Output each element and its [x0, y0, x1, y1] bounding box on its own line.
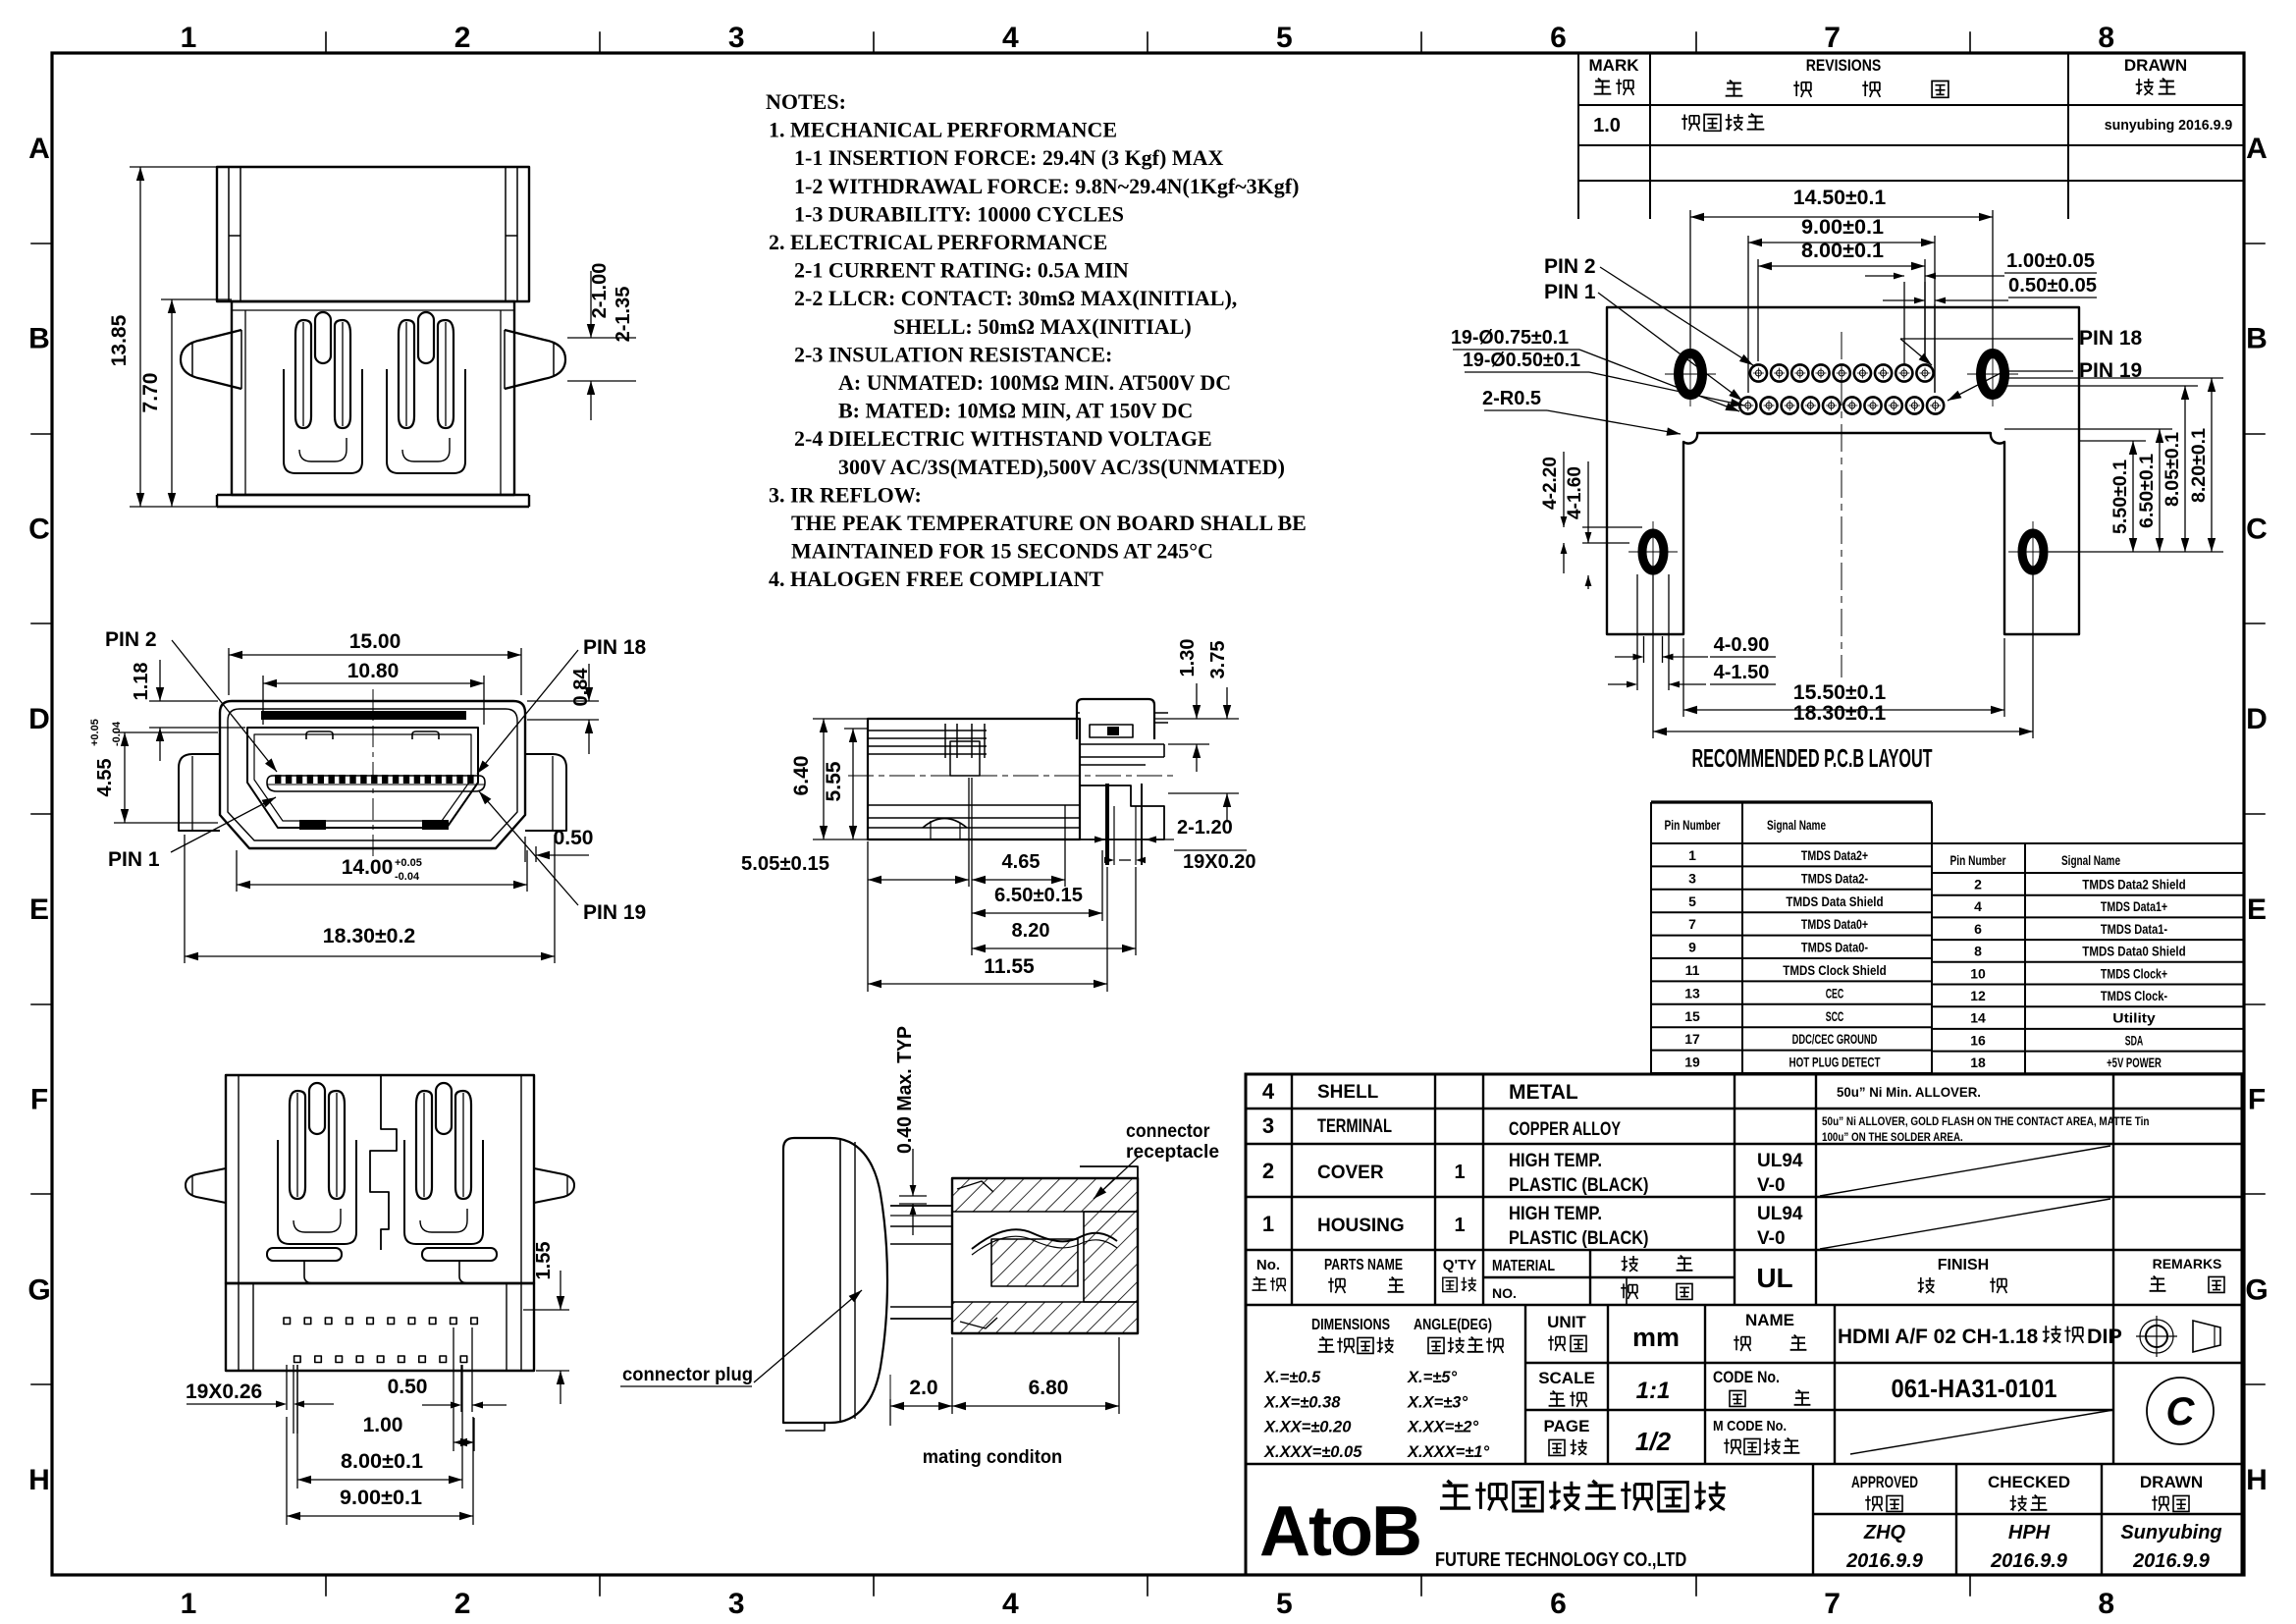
svg-text:HOUSING: HOUSING — [1317, 1216, 1405, 1236]
svg-text:ANGLE(DEG): ANGLE(DEG) — [1414, 1317, 1492, 1333]
svg-text:X.XX=±0.20: X.XX=±0.20 — [1263, 1419, 1352, 1436]
PCB pin holes: even row (2-18) — [1750, 364, 1767, 381]
view 5 connector plug body — [783, 1138, 887, 1423]
PCB pin holes: odd row (1-19) — [1739, 397, 1756, 413]
svg-text:2016.9.9: 2016.9.9 — [2132, 1550, 2211, 1572]
svg-text:APPROVED: APPROVED — [1851, 1473, 1918, 1491]
svg-text:TMDS Clock-: TMDS Clock- — [2101, 988, 2167, 1003]
svg-text:12: 12 — [1970, 988, 1986, 1003]
svg-text:3: 3 — [1688, 870, 1696, 886]
svg-text:0.84: 0.84 — [570, 668, 592, 707]
label 19-Ø0.50±0.1 — [1465, 372, 1744, 406]
svg-text:TMDS Data1+: TMDS Data1+ — [2101, 898, 2167, 914]
svg-text:1.30: 1.30 — [1177, 639, 1199, 677]
svg-text:DDC/CEC GROUND: DDC/CEC GROUND — [1792, 1031, 1878, 1047]
svg-text:NO.: NO. — [1492, 1285, 1517, 1301]
dim 8.20 — [972, 867, 1136, 955]
svg-text:300V AC/3S(MATED),500V AC/3S(U: 300V AC/3S(MATED),500V AC/3S(UNMATED) — [838, 455, 1285, 479]
svg-text:1: 1 — [1688, 847, 1696, 863]
svg-text:C: C — [28, 513, 50, 545]
svg-text:1-2 WITHDRAWAL FORCE: 9.8N~29: 1-2 WITHDRAWAL FORCE: 9.8N~29.4N(1Kgf~3K… — [794, 174, 1299, 198]
svg-text:TMDS Data Shield: TMDS Data Shield — [1786, 893, 1883, 909]
labels PIN 2 / PIN 1 — [1598, 267, 1753, 401]
svg-text:2. ELECTRICAL PERFORMANCE: 2. ELECTRICAL PERFORMANCE — [769, 230, 1107, 254]
dim 10.80 — [263, 676, 484, 725]
view 4 DIP legs — [1105, 784, 1109, 865]
zone tick marks — [325, 32, 327, 53]
dim 0.40 Max. TYP — [899, 1149, 927, 1235]
dim 1.30 / 3.75 — [1154, 683, 1239, 821]
svg-text:A: A — [2246, 133, 2268, 165]
svg-text:PIN 1: PIN 1 — [108, 848, 160, 871]
dim 5.05±0.15 / 4.65 — [868, 778, 1065, 992]
svg-text:7: 7 — [1824, 22, 1841, 54]
dim 2-1.00 / 2-1.35 — [567, 271, 636, 420]
svg-text:SHELL: 50mΩ MAX(INITIAL): SHELL: 50mΩ MAX(INITIAL) — [893, 314, 1192, 339]
dim 11.55 — [868, 867, 1107, 992]
svg-text:7.70: 7.70 — [139, 373, 162, 413]
svg-text:COPPER ALLOY: COPPER ALLOY — [1509, 1119, 1621, 1140]
view 5: mating condition — [783, 1138, 1138, 1431]
view 3 side tabs — [186, 1168, 226, 1203]
labels PIN 18 / PIN 19 — [1900, 339, 2073, 401]
svg-text:METAL: METAL — [1509, 1081, 1578, 1104]
svg-text:connector: connector — [1126, 1121, 1210, 1142]
svg-text:B: MATED: 10MΩ MIN, AT 150V: B: MATED: 10MΩ MIN, AT 150V DC — [838, 399, 1193, 423]
svg-text:X.=±5°: X.=±5° — [1407, 1369, 1457, 1386]
svg-text:CODE No.: CODE No. — [1713, 1368, 1780, 1386]
svg-text:4.65: 4.65 — [1002, 851, 1041, 873]
svg-text:6: 6 — [1550, 1588, 1567, 1620]
svg-text:HDMI A/F 02 CH-1.18: HDMI A/F 02 CH-1.18 — [1838, 1325, 2038, 1348]
svg-text:1: 1 — [181, 22, 197, 54]
svg-text:18: 18 — [1970, 1055, 1986, 1070]
svg-text:A: A — [28, 133, 50, 165]
svg-text:AtoB: AtoB — [1259, 1492, 1420, 1571]
svg-text:16: 16 — [1970, 1032, 1986, 1048]
svg-text:UNIT: UNIT — [1547, 1313, 1586, 1331]
svg-text:5.50±0.1: 5.50±0.1 — [2110, 460, 2131, 534]
svg-text:REMARKS: REMARKS — [2153, 1256, 2222, 1272]
svg-text:2016.9.9: 2016.9.9 — [1845, 1550, 1924, 1572]
svg-text:mating conditon: mating conditon — [923, 1447, 1063, 1468]
dim 14.50±0.1 — [1690, 210, 1993, 349]
svg-text:8.00±0.1: 8.00±0.1 — [341, 1450, 423, 1473]
dim 2-1.20 / 19X0.20 — [1090, 837, 1247, 864]
svg-text:1. MECHANICAL PERFORMANCE: 1. MECHANICAL PERFORMANCE — [769, 118, 1117, 142]
svg-text:E: E — [2247, 893, 2267, 926]
svg-text:DRAWN: DRAWN — [2124, 56, 2187, 75]
svg-text:100u” ON THE SOLDER AREA.: 100u” ON THE SOLDER AREA. — [1822, 1132, 1963, 1144]
svg-text:1: 1 — [1454, 1215, 1465, 1236]
svg-text:SDA: SDA — [2125, 1032, 2144, 1048]
svg-text:1: 1 — [1262, 1212, 1274, 1236]
svg-text:9: 9 — [1688, 940, 1696, 955]
svg-text:4: 4 — [1262, 1079, 1275, 1104]
svg-text:X.=±0.5: X.=±0.5 — [1263, 1369, 1321, 1386]
svg-text:9.00±0.1: 9.00±0.1 — [340, 1487, 422, 1509]
svg-text:7: 7 — [1824, 1588, 1841, 1620]
label 2-R0.5 — [1484, 410, 1681, 436]
svg-text:1.18: 1.18 — [131, 663, 152, 701]
svg-text:3: 3 — [728, 1588, 745, 1620]
svg-text:C: C — [2246, 513, 2268, 545]
svg-text:TMDS Clock+: TMDS Clock+ — [2101, 965, 2167, 981]
svg-text:14.50±0.1: 14.50±0.1 — [1793, 187, 1887, 209]
svg-text:PIN 18: PIN 18 — [2079, 327, 2143, 350]
view 5 spring contact — [972, 1229, 1117, 1249]
svg-text:8.00±0.1: 8.00±0.1 — [1801, 240, 1884, 262]
right vertical dims 5.50/6.50/8.05/8.20 — [2004, 378, 2223, 552]
svg-text:V-0: V-0 — [1757, 1228, 1786, 1249]
svg-text:2: 2 — [454, 1588, 471, 1620]
dim 6.40 — [813, 719, 868, 839]
svg-text:2: 2 — [454, 22, 471, 54]
svg-text:FUTURE TECHNOLOGY CO.,LTD: FUTURE TECHNOLOGY CO.,LTD — [1435, 1548, 1686, 1571]
svg-text:MAINTAINED FOR 15 SECONDS AT 2: MAINTAINED FOR 15 SECONDS AT 245°C — [791, 539, 1213, 564]
svg-text:11: 11 — [1685, 962, 1700, 978]
svg-text:PARTS NAME: PARTS NAME — [1324, 1257, 1403, 1273]
dim 0.50±0.05 — [1883, 298, 2097, 393]
svg-text:PIN 2: PIN 2 — [105, 628, 157, 651]
dim 18.30±0.1 — [1653, 574, 2033, 738]
svg-text:7: 7 — [1688, 916, 1696, 932]
svg-text:3: 3 — [728, 22, 745, 54]
svg-text:8.20: 8.20 — [1012, 920, 1050, 942]
svg-text:HIGH TEMP.: HIGH TEMP. — [1509, 1204, 1602, 1224]
dim 15.00 — [229, 648, 521, 695]
svg-text:4-2.20: 4-2.20 — [1540, 457, 1561, 510]
dim 1.00 — [454, 1327, 474, 1451]
svg-text:X.XXX=±0.05: X.XXX=±0.05 — [1263, 1443, 1362, 1461]
svg-text:sunyubing 2016.9.9: sunyubing 2016.9.9 — [2105, 118, 2233, 134]
svg-text:X.X=±0.38: X.X=±0.38 — [1263, 1393, 1341, 1411]
svg-text:5.05±0.15: 5.05±0.15 — [741, 853, 829, 875]
svg-text:15.00: 15.00 — [349, 630, 401, 653]
svg-text:PIN 19: PIN 19 — [583, 901, 646, 924]
svg-text:HPH: HPH — [2008, 1522, 2051, 1543]
view 2 contact blade with 19 teeth — [267, 776, 485, 791]
svg-text:5: 5 — [1276, 22, 1293, 54]
svg-text:F: F — [2248, 1084, 2266, 1116]
label 19-Ø0.75±0.1 — [1453, 350, 1739, 411]
svg-text:Sunyubing: Sunyubing — [2120, 1522, 2221, 1543]
svg-text:6: 6 — [1974, 921, 1982, 937]
svg-text:4-1.50: 4-1.50 — [1714, 662, 1770, 683]
svg-text:Q'TY: Q'TY — [1443, 1257, 1476, 1273]
svg-text:CEC: CEC — [1826, 985, 1844, 1001]
svg-text:8: 8 — [2098, 22, 2114, 54]
svg-text:3.75: 3.75 — [1207, 641, 1229, 679]
svg-text:2: 2 — [1262, 1159, 1274, 1183]
svg-text:UL94: UL94 — [1757, 1151, 1803, 1171]
svg-text:2-1.00: 2-1.00 — [589, 263, 611, 319]
svg-text:4: 4 — [1974, 898, 1982, 914]
svg-text:DIP: DIP — [2087, 1325, 2122, 1348]
svg-text:TERMINAL: TERMINAL — [1317, 1116, 1392, 1137]
svg-text:14: 14 — [1970, 1010, 1986, 1026]
finish column diagonals — [1820, 1146, 2113, 1454]
svg-text:Pin Number: Pin Number — [1665, 817, 1721, 833]
svg-text:1.0: 1.0 — [1593, 115, 1621, 136]
svg-text:FINISH: FINISH — [1938, 1257, 1989, 1273]
svg-text:TMDS Data0+: TMDS Data0+ — [1801, 916, 1868, 932]
svg-text:RECOMMENDED P.C.B LAYOUT: RECOMMENDED P.C.B LAYOUT — [1692, 743, 1933, 773]
svg-text:19-Ø0.50±0.1: 19-Ø0.50±0.1 — [1463, 350, 1580, 371]
svg-text:+0.05: +0.05 — [395, 857, 422, 869]
svg-text:PIN 1: PIN 1 — [1544, 281, 1596, 303]
view 3 solder-pin area — [226, 1283, 534, 1371]
svg-text:0.50: 0.50 — [554, 827, 594, 849]
svg-text:DRAWN: DRAWN — [2140, 1473, 2203, 1491]
svg-text:2: 2 — [1974, 877, 1982, 893]
svg-text:6.40: 6.40 — [790, 756, 813, 796]
svg-text:2-1.20: 2-1.20 — [1177, 817, 1233, 839]
svg-text:PLASTIC (BLACK): PLASTIC (BLACK) — [1509, 1228, 1649, 1249]
label connector receptacle — [1094, 1157, 1139, 1199]
svg-text:0.50: 0.50 — [388, 1376, 428, 1398]
dim 0.50 (pitch offset) — [422, 1327, 507, 1412]
view 2 latch tabs — [306, 731, 333, 739]
view 1 contact clips — [315, 312, 331, 363]
svg-text:5: 5 — [1276, 1588, 1293, 1620]
dim 1.00±0.05 — [1865, 273, 2097, 365]
svg-text:C: C — [2166, 1390, 2196, 1434]
svg-text:TMDS Data0-: TMDS Data0- — [1801, 940, 1868, 955]
svg-text:E: E — [29, 893, 49, 926]
svg-text:HIGH TEMP.: HIGH TEMP. — [1509, 1151, 1602, 1171]
svg-text:NOTES:: NOTES: — [766, 89, 846, 114]
svg-text:2-R0.5: 2-R0.5 — [1482, 388, 1541, 409]
svg-text:PLASTIC (BLACK): PLASTIC (BLACK) — [1509, 1175, 1649, 1196]
svg-text:X.XX=±2°: X.XX=±2° — [1407, 1419, 1478, 1436]
svg-text:H: H — [2246, 1464, 2268, 1496]
svg-text:4. HALOGEN FREE COMPLIANT: 4. HALOGEN FREE COMPLIANT — [769, 567, 1103, 591]
svg-text:-0.04: -0.04 — [395, 871, 420, 883]
svg-text:PIN 18: PIN 18 — [583, 636, 647, 659]
svg-text:19X0.20: 19X0.20 — [1183, 851, 1256, 873]
dim 14.00 — [237, 850, 527, 892]
dim 1.18 — [149, 660, 245, 761]
view 4 contact stack — [944, 724, 946, 758]
dim 18.30±0.2 — [185, 835, 555, 963]
svg-text:1: 1 — [1454, 1162, 1465, 1183]
dim 4.55 — [114, 732, 218, 823]
svg-text:-0.04: -0.04 — [111, 721, 123, 746]
dim 5.55 — [844, 729, 868, 839]
dim 7.70 — [161, 299, 232, 507]
svg-text:TMDS Clock Shield: TMDS Clock Shield — [1783, 962, 1886, 978]
svg-text:1/2: 1/2 — [1635, 1427, 1672, 1456]
dim 19X0.26 — [187, 1365, 334, 1434]
view 5 connector receptacle (section, hatched) — [952, 1178, 1138, 1333]
svg-text:1.00±0.05: 1.00±0.05 — [2006, 250, 2095, 272]
svg-text:6: 6 — [1550, 22, 1567, 54]
svg-text:6.50±0.15: 6.50±0.15 — [994, 885, 1083, 906]
svg-text:UL: UL — [1756, 1263, 1792, 1293]
svg-text:D: D — [28, 703, 50, 735]
svg-text:1.00: 1.00 — [363, 1414, 403, 1436]
dims 4-2.20 / 4-1.60 — [1561, 452, 1642, 589]
svg-text:D: D — [2246, 703, 2268, 735]
view 3 solder feet — [267, 1248, 342, 1261]
svg-text:G: G — [27, 1273, 50, 1306]
svg-text:2016.9.9: 2016.9.9 — [1990, 1550, 2068, 1572]
svg-text:+5V POWER: +5V POWER — [2107, 1055, 2162, 1070]
svg-text:SCALE: SCALE — [1538, 1369, 1595, 1387]
svg-text:THE PEAK TEMPERATURE ON BOARD: THE PEAK TEMPERATURE ON BOARD SHALL BE — [791, 511, 1307, 535]
svg-text:TMDS Data0 Shield: TMDS Data0 Shield — [2082, 944, 2185, 959]
svg-text:REVISIONS: REVISIONS — [1806, 56, 1882, 75]
svg-text:H: H — [28, 1464, 50, 1496]
svg-text:4-0.90: 4-0.90 — [1714, 634, 1770, 656]
svg-text:19: 19 — [1684, 1055, 1700, 1070]
svg-text:Pin Number: Pin Number — [1950, 852, 2006, 868]
svg-text:8: 8 — [2098, 1588, 2114, 1620]
dim 9.00±0.1 — [1748, 236, 1935, 393]
svg-text:10.80: 10.80 — [347, 660, 400, 682]
svg-text:TMDS Data2-: TMDS Data2- — [1801, 870, 1868, 886]
dim 0.50 — [525, 837, 589, 862]
dims 4-0.90 / 4-1.50 — [1608, 574, 1776, 690]
svg-text:18.30±0.1: 18.30±0.1 — [1793, 702, 1887, 725]
dim 0.84 — [527, 664, 599, 754]
svg-text:X.XXX=±1°: X.XXX=±1° — [1407, 1443, 1489, 1461]
svg-text:0.50±0.05: 0.50±0.05 — [2008, 275, 2097, 297]
company name hanzi — [1440, 1481, 1470, 1508]
dim 8.00±0.1 — [297, 1365, 462, 1489]
svg-text:G: G — [2245, 1273, 2268, 1306]
svg-text:10: 10 — [1970, 965, 1986, 981]
svg-text:2-4 DIELECTRIC WITHSTAND VOLTA: 2-4 DIELECTRIC WITHSTAND VOLTAGE — [794, 426, 1212, 451]
svg-text:ZHQ: ZHQ — [1863, 1522, 1906, 1543]
svg-text:No.: No. — [1256, 1257, 1280, 1273]
svg-text:11.55: 11.55 — [984, 955, 1035, 978]
svg-text:TMDS Data2 Shield: TMDS Data2 Shield — [2082, 877, 2185, 893]
svg-text:receptacle: receptacle — [1126, 1142, 1219, 1163]
svg-text:19-Ø0.75±0.1: 19-Ø0.75±0.1 — [1451, 327, 1569, 349]
svg-text:HOT PLUG DETECT: HOT PLUG DETECT — [1789, 1055, 1881, 1070]
pin table left (odd pins) — [1651, 802, 1932, 1073]
svg-text:TMDS Data1-: TMDS Data1- — [2101, 921, 2167, 937]
PCB oval slots — [1679, 353, 1702, 395]
svg-text:6.50±0.1: 6.50±0.1 — [2137, 454, 2158, 528]
svg-text:+0.05: +0.05 — [89, 719, 101, 746]
dim 6.50±0.15 — [972, 850, 1102, 921]
svg-text:2-1 CURRENT RATING: 0.5A MIN: 2-1 CURRENT RATING: 0.5A MIN — [794, 258, 1129, 283]
svg-text:SHELL: SHELL — [1317, 1082, 1379, 1103]
svg-text:B: B — [2246, 323, 2268, 355]
svg-text:15: 15 — [1684, 1008, 1700, 1024]
svg-text:13.85: 13.85 — [108, 314, 131, 366]
svg-text:14.00: 14.00 — [342, 856, 394, 879]
svg-text:9.00±0.1: 9.00±0.1 — [1801, 216, 1884, 239]
svg-text:8.20±0.1: 8.20±0.1 — [2189, 428, 2210, 503]
svg-text:PAGE: PAGE — [1544, 1417, 1590, 1435]
svg-text:MATERIAL: MATERIAL — [1492, 1258, 1555, 1274]
label connector plug — [620, 1290, 862, 1386]
svg-text:UL94: UL94 — [1757, 1204, 1803, 1224]
svg-text:B: B — [28, 323, 50, 355]
svg-text:Utility: Utility — [2112, 1010, 2156, 1026]
svg-text:Signal Name: Signal Name — [2061, 852, 2120, 868]
view 2 side wings — [179, 754, 220, 831]
svg-text:5: 5 — [1688, 893, 1696, 909]
svg-text:061-HA31-0101: 061-HA31-0101 — [1892, 1374, 2057, 1403]
svg-text:17: 17 — [1684, 1031, 1700, 1047]
svg-text:2-3 INSULATION RESISTANCE:: 2-3 INSULATION RESISTANCE: — [794, 342, 1112, 366]
view 1 right board-lock tab — [505, 330, 565, 389]
view 3: connector bottom view with clips — [186, 1075, 574, 1371]
svg-text:8.05±0.1: 8.05±0.1 — [2163, 432, 2183, 507]
dim 15.50±0.1 — [1683, 638, 2004, 717]
svg-text:8: 8 — [1974, 944, 1982, 959]
svg-text:V-0: V-0 — [1757, 1175, 1786, 1196]
recommended PCB layout — [1607, 307, 2079, 677]
svg-text:18.30±0.2: 18.30±0.2 — [323, 925, 416, 947]
svg-text:connector plug: connector plug — [622, 1365, 753, 1385]
svg-text:PIN 2: PIN 2 — [1544, 255, 1596, 278]
svg-text:Signal Name: Signal Name — [1767, 817, 1826, 833]
svg-text:3: 3 — [1262, 1113, 1274, 1138]
dim 8.00±0.1 — [1758, 259, 1925, 361]
svg-text:X.X=±3°: X.X=±3° — [1407, 1393, 1468, 1411]
svg-text:2-1.35: 2-1.35 — [613, 287, 634, 343]
svg-text:A: UNMATED: 100MΩ MIN. AT50: A: UNMATED: 100MΩ MIN. AT500V DC — [838, 370, 1231, 395]
pin table right (even pins) — [1932, 843, 2244, 1073]
svg-text:MARK: MARK — [1589, 56, 1640, 75]
svg-text:3. IR REFLOW:: 3. IR REFLOW: — [769, 482, 922, 507]
view 3 contact clips — [309, 1083, 325, 1134]
view 1: connector front view — [181, 167, 565, 507]
svg-text:19X0.26: 19X0.26 — [186, 1380, 262, 1403]
svg-text:M CODE No.: M CODE No. — [1713, 1418, 1787, 1435]
svg-text:1-1 INSERTION FORCE: 29.4N (3: 1-1 INSERTION FORCE: 29.4N (3 Kgf) MAX — [794, 145, 1223, 170]
svg-text:SCC: SCC — [1826, 1008, 1844, 1024]
svg-text:50u” Ni Min. ALLOVER.: 50u” Ni Min. ALLOVER. — [1837, 1084, 1981, 1100]
title block grid — [1246, 1074, 2242, 1575]
C stamp circle — [2147, 1378, 2214, 1444]
pin labels view2 — [171, 640, 578, 905]
view 5 plug shaft — [890, 1205, 952, 1207]
dim 1.55 — [523, 1271, 569, 1404]
svg-text:F: F — [30, 1084, 48, 1116]
svg-text:1: 1 — [181, 1588, 197, 1620]
projection symbols — [2136, 1316, 2220, 1357]
svg-text:13: 13 — [1684, 985, 1700, 1001]
svg-text:COVER: COVER — [1317, 1163, 1384, 1183]
svg-text:4: 4 — [1002, 22, 1019, 54]
svg-text:6.80: 6.80 — [1029, 1377, 1069, 1399]
view 2: connector mating face view — [179, 689, 566, 868]
svg-text:2-2 LLCR: CONTACT: 30mΩ MAX(IN: 2-2 LLCR: CONTACT: 30mΩ MAX(INITIAL), — [794, 286, 1237, 310]
svg-text:CHECKED: CHECKED — [1988, 1473, 2070, 1491]
view 2 D-shaped opening — [247, 728, 478, 828]
svg-text:TMDS Data2+: TMDS Data2+ — [1801, 847, 1868, 863]
svg-text:DIMENSIONS: DIMENSIONS — [1311, 1317, 1390, 1333]
view 4: side view — [848, 699, 1178, 865]
dim 2.0 / 6.80 — [890, 1337, 1119, 1426]
svg-text:50u” Ni ALLOVER, GOLD FLASH ON: 50u” Ni ALLOVER, GOLD FLASH ON THE CONTA… — [1822, 1116, 2150, 1128]
dim 13.85 — [130, 167, 217, 507]
svg-text:4: 4 — [1002, 1588, 1019, 1620]
svg-text:1.55: 1.55 — [533, 1242, 555, 1280]
svg-text:NAME: NAME — [1745, 1311, 1794, 1329]
view 1 left board-lock tab — [181, 330, 241, 389]
svg-text:4.55: 4.55 — [94, 759, 116, 797]
revisions table — [1578, 53, 2244, 219]
svg-text:0.40 Max. TYP: 0.40 Max. TYP — [894, 1026, 916, 1154]
